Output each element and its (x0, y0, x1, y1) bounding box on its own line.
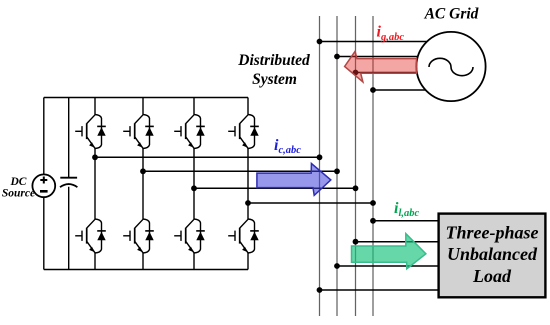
transistor Q7 (leg3 bottom IGBT + diode) (174, 219, 205, 253)
svg-text:ic,abc: ic,abc (274, 137, 301, 156)
wire inverter output a (95, 156, 320, 158)
svg-text:DC: DC (10, 176, 27, 188)
node load 1 junction (370, 218, 376, 224)
wire inverter output c (194, 187, 356, 189)
transistor Q5 (leg1 bottom IGBT + diode) (75, 219, 106, 253)
transistor Q4 (leg4 top IGBT + diode) (228, 115, 259, 149)
node output c leg junction (191, 185, 197, 191)
svg-text:AC Grid: AC Grid (424, 5, 479, 22)
node grid n junction (370, 87, 376, 93)
transistor Q8 (leg4 bottom IGBT + diode) (228, 219, 259, 253)
svg-text:Three-phase: Three-phase (446, 222, 539, 242)
transistor Q2 (leg2 top IGBT + diode) (123, 115, 154, 149)
svg-text:Distributed: Distributed (237, 52, 310, 69)
transistor Q1 (leg1 top IGBT + diode) (75, 115, 106, 149)
node output c bus junction (353, 185, 359, 191)
wire grid phase c (356, 72, 422, 74)
ac grid source G1 (416, 32, 485, 101)
node output b bus junction (334, 168, 340, 174)
node load 4 junction (317, 287, 323, 293)
wire capacitor branch (68, 98, 70, 270)
wire inverter leg 1 (94, 98, 96, 270)
node load 2 junction (353, 239, 359, 245)
wire inverter leg 2 (142, 98, 144, 270)
node grid b junction (334, 54, 340, 60)
svg-text:ig,abc: ig,abc (377, 24, 405, 43)
wire inverter bottom rail (44, 269, 248, 271)
wire inverter leg 3 (193, 98, 195, 270)
wire grid phase a (320, 41, 431, 43)
capacitor C1 (60, 178, 77, 188)
node grid c junction (353, 70, 359, 76)
wire grid neutral (373, 89, 430, 91)
node output b leg junction (140, 168, 146, 174)
svg-text:Source: Source (2, 188, 35, 200)
svg-text:System: System (252, 71, 297, 88)
wire dc source branch (43, 98, 45, 270)
arrow grid current (red, pointing left) (345, 51, 417, 82)
svg-text:Unbalanced: Unbalanced (447, 244, 538, 264)
wire load phase 2 (356, 241, 439, 243)
arrow load current (green, pointing right) (352, 234, 426, 269)
node output n leg junction (245, 200, 251, 206)
wire load phase 3 (337, 265, 439, 267)
wire inverter output b (143, 170, 337, 172)
node output a leg junction (92, 154, 98, 160)
wire bus line n (vertical) (372, 16, 374, 316)
node grid a junction (317, 39, 323, 45)
load block: three-phase unbalanced load (439, 214, 546, 298)
wire load phase 1 (373, 220, 439, 222)
node output a bus junction (317, 154, 323, 160)
wire bus line a (vertical) (319, 16, 321, 316)
wire load phase 4 (320, 289, 439, 291)
transistor Q6 (leg2 bottom IGBT + diode) (123, 219, 154, 253)
wire grid phase b (337, 56, 422, 58)
wire inverter output n (248, 202, 373, 204)
node output n bus junction (370, 200, 376, 206)
arrow converter current (blue, pointing right) (257, 164, 331, 196)
svg-text:il,abc: il,abc (394, 200, 419, 219)
dc source V1 (32, 174, 55, 197)
node load 3 junction (334, 263, 340, 269)
wire inverter leg 4 (247, 98, 249, 270)
wire bus line b (vertical) (336, 16, 338, 316)
transistor Q3 (leg3 top IGBT + diode) (174, 115, 205, 149)
wire bus line c (vertical) (355, 16, 357, 316)
wire inverter top rail (44, 97, 248, 99)
svg-text:Load: Load (472, 266, 512, 286)
